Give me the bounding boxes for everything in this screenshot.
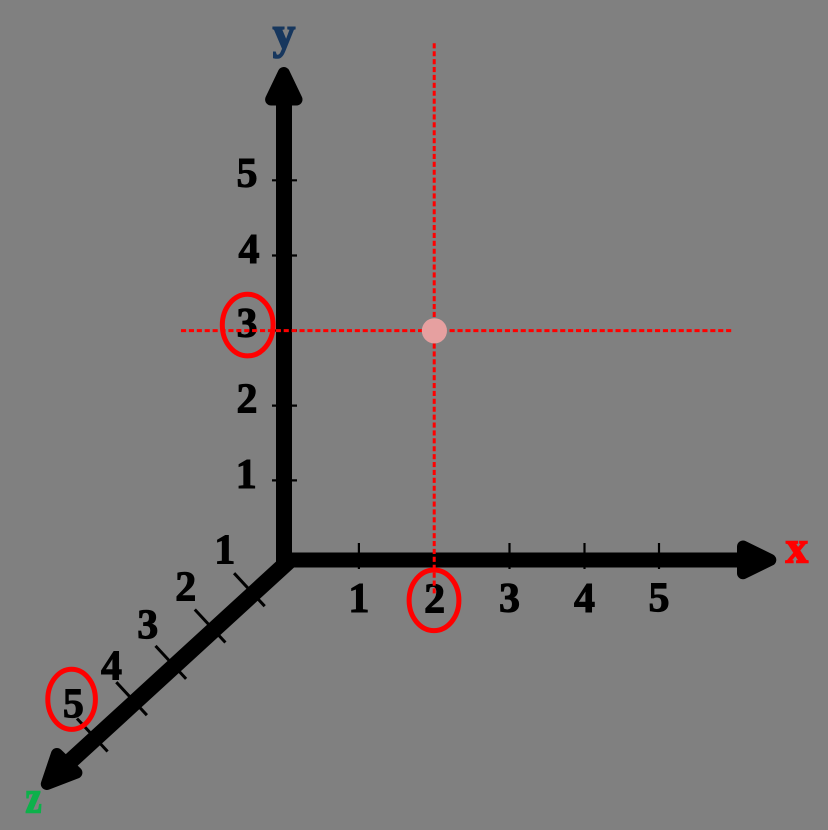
z-axis tick 4 — [116, 682, 147, 715]
y-axis tick 2 — [272, 405, 297, 407]
svg-text:3: 3 — [237, 301, 258, 347]
horizontal dashed line y=3 — [181, 329, 734, 332]
z-axis shaft — [64, 560, 290, 767]
svg-text:y: y — [273, 9, 296, 59]
x-axis tick 3 — [508, 543, 510, 569]
svg-text:5: 5 — [237, 151, 258, 197]
z-axis tick 1 — [234, 573, 265, 606]
y-axis arrowhead — [271, 73, 296, 100]
svg-text:5: 5 — [649, 576, 670, 622]
svg-text:2: 2 — [175, 565, 196, 611]
vertical dashed line x=2 — [433, 43, 436, 593]
svg-text:z: z — [25, 773, 41, 824]
y-axis tick 3 — [272, 329, 297, 331]
x-axis arrowhead — [743, 547, 770, 574]
svg-text:4: 4 — [574, 576, 595, 622]
x-axis tick 5 — [658, 543, 660, 569]
svg-text:4: 4 — [101, 643, 122, 689]
svg-text:2: 2 — [237, 377, 258, 423]
z-axis arrowhead — [47, 754, 77, 784]
y-axis tick 1 — [272, 479, 297, 481]
z-axis tick 3 — [156, 646, 187, 679]
x-axis shaft — [284, 553, 740, 568]
red ellipse around y number 3 — [222, 294, 273, 356]
svg-text:1: 1 — [214, 528, 235, 574]
svg-text:1: 1 — [236, 452, 257, 498]
svg-text:1: 1 — [348, 576, 369, 622]
svg-text:4: 4 — [239, 227, 260, 273]
y-axis tick 5 — [272, 179, 297, 181]
y-axis shaft — [276, 88, 292, 568]
y-axis tick 4 — [272, 254, 297, 256]
svg-text:5: 5 — [63, 682, 84, 728]
point (2,3) pink dot — [422, 318, 447, 343]
svg-text:x: x — [786, 523, 809, 573]
svg-text:3: 3 — [499, 576, 520, 622]
svg-text:3: 3 — [137, 603, 158, 649]
red ellipse around z number 5 — [48, 669, 96, 729]
x-axis tick 4 — [583, 543, 585, 569]
red ellipse around x number 2 — [409, 570, 459, 631]
x-axis tick 1 — [358, 543, 360, 569]
z-axis tick 5 — [77, 719, 108, 752]
z-axis tick 2 — [195, 610, 226, 643]
